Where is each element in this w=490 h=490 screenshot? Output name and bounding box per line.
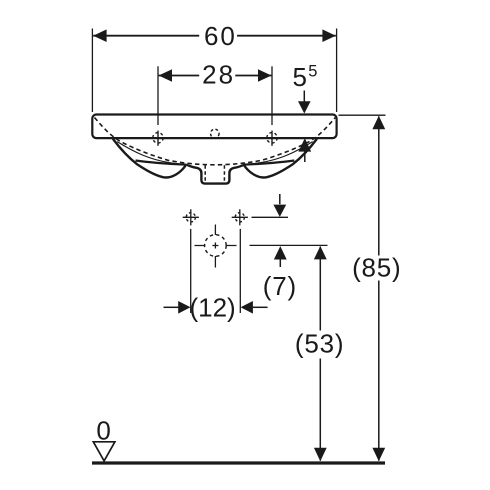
right tap hole centerline tick xyxy=(271,131,273,146)
dimension 5.5: upper arrow (down) xyxy=(303,91,305,103)
dimension 12: right extension line xyxy=(239,229,241,313)
dimension 5.5: lower arrow (up) xyxy=(298,138,311,151)
overflow hole (dashed circle) xyxy=(211,129,220,138)
dimension 28: dimension line xyxy=(159,75,272,77)
zero level marker triangle xyxy=(93,442,115,461)
dimension 7: lower arrow (up) xyxy=(274,246,287,259)
washbasin rim slab (front view) xyxy=(92,115,336,139)
dimension 53: top arrowhead (up) xyxy=(314,246,327,259)
dimension 60: right extension line xyxy=(336,29,338,113)
dimension 28: right extension line xyxy=(271,66,273,125)
inner bowl hidden contour (dashed arc) xyxy=(95,118,336,165)
dimension 85: bottom arrowhead (down) xyxy=(372,448,385,461)
right tap hole (dashed circle) xyxy=(267,133,277,143)
svg-text:(12): (12) xyxy=(189,292,235,322)
right outer bowl silhouette curve xyxy=(244,139,317,178)
bowl underside and drain trap cover outline xyxy=(186,165,244,184)
left tap hole (dashed circle) xyxy=(153,133,163,143)
dimension 12: left extension line xyxy=(190,229,192,313)
dimension 12: left arrow (pointing right) xyxy=(164,306,179,308)
dimension 53: extension line at drain level xyxy=(250,244,328,246)
right bowl inner edge (thin line) xyxy=(244,142,313,165)
right bowl bottom shelf line xyxy=(244,161,295,165)
dimension 28: right arrowhead xyxy=(258,69,271,82)
dimension 60: dimension line xyxy=(93,35,336,37)
svg-text:60: 60 xyxy=(204,21,237,51)
drain hole center lines xyxy=(214,225,216,268)
dimension 60: right arrowhead xyxy=(322,29,335,42)
hidden drain pipe right edge (dashed) xyxy=(223,165,225,181)
dimension 85: extension line at basin top level xyxy=(339,114,386,116)
dimension 60: left arrowhead xyxy=(93,29,106,42)
svg-text:0: 0 xyxy=(96,416,110,446)
svg-text:28: 28 xyxy=(202,60,235,90)
dimension 60: left extension line xyxy=(91,29,93,113)
left fixing bolt hole (dashed circle with crosshair) xyxy=(186,213,195,222)
dimension 7: extension line at bolt hole level xyxy=(252,216,289,218)
hidden drain pipe left edge (dashed) xyxy=(204,165,206,181)
left tap hole centerline tick xyxy=(157,131,159,146)
svg-text:(85): (85) xyxy=(352,252,401,282)
dimension 85: dimension line xyxy=(378,116,380,460)
drain hole (dashed circle) xyxy=(205,235,227,257)
right fixing bolt hole (dashed circle with crosshair) xyxy=(235,213,244,222)
dimension 85: top arrowhead (up) xyxy=(372,116,385,129)
svg-text:5: 5 xyxy=(308,62,317,80)
dimension 28: left extension line xyxy=(157,66,159,125)
dimension 28: left arrowhead xyxy=(159,69,172,82)
svg-text:5: 5 xyxy=(292,62,306,92)
dimension 53: dimension line xyxy=(319,247,321,461)
left bowl bottom shelf line xyxy=(136,161,187,165)
dimension 7: upper arrow (down) xyxy=(279,194,281,204)
svg-text:(7): (7) xyxy=(263,271,297,301)
left outer bowl silhouette curve xyxy=(113,139,186,178)
dimension 53: bottom arrowhead (down) xyxy=(314,448,327,461)
zero level floor line xyxy=(92,461,385,464)
dimension 12: right arrow (pointing left) xyxy=(241,301,253,314)
svg-text:(53): (53) xyxy=(295,328,344,358)
left bowl inner edge (thin line) xyxy=(117,142,186,165)
